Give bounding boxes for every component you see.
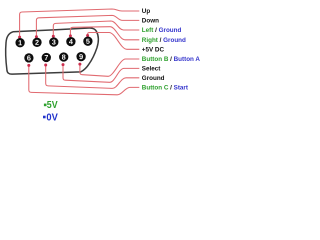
svg-text:+5V DC: +5V DC [142, 47, 165, 54]
wire pin9 to Button B/Button A [80, 59, 139, 76]
svg-text:0V: 0V [46, 113, 58, 124]
wire end dot pin4 [69, 34, 72, 37]
pin 4 [66, 37, 75, 46]
wire pin3 to Left/Ground [53, 21, 139, 36]
pin 2 [32, 38, 41, 47]
pin 5 [83, 37, 92, 46]
wire pin2 to Down [36, 15, 139, 36]
svg-text:Select: Select [142, 66, 161, 73]
svg-text:5V: 5V [47, 100, 58, 111]
wire pin4 to Right/Ground [70, 27, 139, 40]
wire end dot pin1 [18, 36, 21, 39]
pin 1 [15, 38, 24, 47]
svg-text:Button B / Button A: Button B / Button A [142, 56, 200, 63]
pin 9 [76, 52, 85, 61]
wire pin7 to Ground [46, 65, 140, 89]
wire pin6 to Button C/Start [29, 65, 140, 95]
pin 8 [59, 52, 68, 61]
wire pin5 to +5V DC [88, 33, 140, 50]
svg-text:Left / Ground: Left / Ground [142, 27, 182, 34]
legend 0V swatch [43, 116, 46, 119]
wire end dot pin7 [44, 64, 47, 67]
wire end dot pin9 [78, 63, 81, 66]
svg-text:Up: Up [142, 8, 151, 15]
pin 7 [42, 53, 51, 62]
svg-text:Ground: Ground [142, 75, 165, 82]
wire end dot pin5 [86, 34, 89, 37]
wire end dot pin3 [52, 35, 55, 38]
wire end dot pin2 [35, 35, 38, 38]
wire pin1 to Up [20, 9, 140, 37]
svg-text:Right / Ground: Right / Ground [142, 37, 186, 44]
svg-text:Down: Down [142, 18, 159, 25]
wire end dot pin6 [27, 64, 30, 67]
connector shell J1 [6, 28, 99, 74]
wire end dot pin8 [62, 63, 65, 66]
wire pin8 to Select [63, 65, 139, 83]
pin 3 [49, 37, 58, 46]
svg-text:Button C / Start: Button C / Start [142, 85, 189, 92]
legend 5V swatch [44, 104, 47, 107]
pin 6 [24, 53, 33, 62]
